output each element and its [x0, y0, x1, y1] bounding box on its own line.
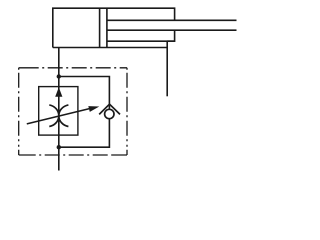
wire: check-valve branch bottom: [59, 119, 110, 148]
piston: [100, 8, 107, 47]
wire: cap-end port line (main vertical): [58, 48, 60, 171]
flow direction arrowhead (up): [55, 87, 62, 97]
wire: check-valve branch top: [59, 77, 110, 110]
flow control valve body (rectangle): [39, 87, 78, 136]
check valve ball: [105, 109, 114, 118]
wire: rod-end port line: [166, 41, 168, 96]
node A (top junction): [57, 74, 61, 78]
enclosure (dash-dot assembly boundary): [19, 68, 127, 155]
node B (bottom junction): [57, 145, 61, 149]
cylinder body (barrel): [53, 8, 175, 47]
piston rod: [107, 20, 237, 41]
throttle restriction arcs: [49, 105, 68, 127]
adjustability arrow (diagonal): [27, 106, 100, 124]
check valve seat: [99, 104, 120, 114]
